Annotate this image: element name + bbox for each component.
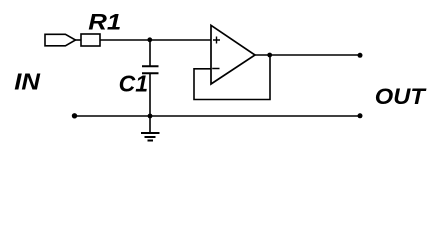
svg-text:C1: C1 bbox=[119, 71, 148, 97]
svg-text:OUT: OUT bbox=[375, 84, 427, 109]
svg-text:IN: IN bbox=[14, 69, 40, 95]
svg-text:R1: R1 bbox=[88, 10, 121, 35]
